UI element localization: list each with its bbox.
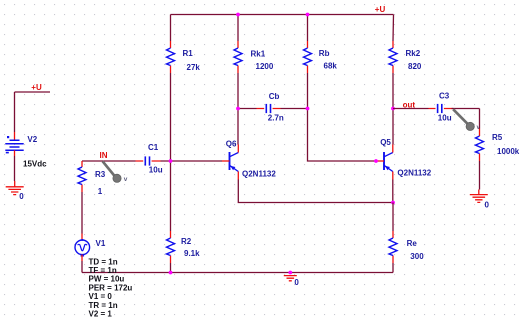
transistor Q5 bbox=[377, 145, 393, 180]
ground 0 (below V2) bbox=[6, 181, 24, 195]
resistor R5 bbox=[476, 129, 484, 162]
svg-text:10u: 10u bbox=[149, 166, 163, 175]
junction dot Q5 base bbox=[374, 159, 378, 163]
junction dot IN column bbox=[169, 159, 173, 163]
svg-text:+U: +U bbox=[375, 5, 386, 14]
wire Rk1 bottom to Cb node to Q6 collector bbox=[237, 73, 239, 145]
wire R3 to V1 bbox=[81, 192, 83, 234]
svg-text:0: 0 bbox=[19, 192, 24, 201]
ground 0 (below R5) bbox=[470, 190, 488, 203]
junction dot emitter bus Re bbox=[391, 201, 395, 205]
svg-text:C1: C1 bbox=[148, 143, 159, 152]
junction dot R2 bottom bbox=[169, 271, 173, 275]
svg-text:Re: Re bbox=[407, 239, 418, 248]
svg-text:C3: C3 bbox=[439, 92, 450, 101]
junction dot Cb right bbox=[306, 107, 310, 111]
source V1 bbox=[75, 234, 90, 262]
wire R2 bottom to rail bbox=[170, 263, 172, 273]
svg-text:300: 300 bbox=[410, 252, 424, 261]
wire Rb column top bbox=[307, 15, 309, 42]
svg-text:V2: V2 bbox=[27, 135, 37, 144]
capacitor C3 bbox=[393, 104, 480, 113]
svg-text:Q6: Q6 bbox=[226, 139, 237, 148]
wire Q5 emitter to Re junction bbox=[392, 180, 394, 203]
wire Rk2 column top bbox=[392, 15, 395, 42]
svg-text:0: 0 bbox=[485, 200, 490, 209]
svg-text:1200: 1200 bbox=[256, 62, 274, 71]
svg-text:820: 820 bbox=[408, 62, 422, 71]
svg-text:0: 0 bbox=[294, 278, 299, 287]
resistor Rb bbox=[304, 41, 312, 73]
wire V1 to bottom rail bbox=[81, 261, 83, 273]
wire IN row R3 to C1 bbox=[82, 160, 136, 162]
wire Re top bbox=[392, 203, 394, 232]
battery V2 bbox=[5, 132, 23, 156]
wire Rb bottom down to Q5 base row bbox=[308, 73, 377, 161]
svg-text:R5: R5 bbox=[492, 133, 503, 142]
junction dot rail-Rk1 bbox=[236, 13, 240, 17]
svg-text:Q5: Q5 bbox=[380, 138, 391, 147]
wire out node to Q5 collector bbox=[392, 109, 394, 145]
capacitor Cb bbox=[238, 104, 308, 113]
svg-text:IN: IN bbox=[100, 151, 108, 160]
svg-text:15Vdc: 15Vdc bbox=[23, 160, 47, 169]
svg-text:27k: 27k bbox=[187, 63, 201, 72]
svg-text:Rk2: Rk2 bbox=[406, 49, 421, 58]
junction dot rail ground bbox=[288, 271, 292, 275]
svg-text:1000k: 1000k bbox=[497, 147, 520, 156]
wire Q6 emitter down and bus to Q5 emitter bbox=[238, 180, 393, 203]
wire Re bottom to rail corner bbox=[392, 263, 394, 273]
junction dot rail-Rb bbox=[306, 13, 310, 17]
wire C3 to R5 bbox=[479, 109, 481, 129]
wire bottom rail bbox=[82, 272, 393, 274]
wire top +U rail bbox=[171, 14, 394, 16]
wire R1 bottom to IN junction to R2 bbox=[170, 73, 172, 231]
svg-text:R1: R1 bbox=[183, 49, 194, 58]
wire Rk1 column top bbox=[237, 15, 239, 42]
resistor Re bbox=[389, 231, 397, 263]
wire C1 to junction to Q6 base bbox=[161, 160, 223, 162]
ground 0 (bottom rail) bbox=[284, 276, 297, 281]
resistor Rk1 bbox=[234, 41, 242, 73]
svg-text:10u: 10u bbox=[438, 114, 452, 123]
resistor R3 bbox=[78, 161, 86, 192]
svg-text:9.1k: 9.1k bbox=[184, 249, 200, 258]
resistor Rk2 bbox=[389, 41, 397, 73]
svg-text:Q2N1132: Q2N1132 bbox=[397, 169, 431, 178]
svg-text:+U: +U bbox=[31, 83, 42, 92]
svg-text:68k: 68k bbox=[324, 62, 338, 71]
svg-text:V1: V1 bbox=[96, 239, 106, 248]
svg-text:R3: R3 bbox=[95, 170, 106, 179]
junction dot Cb left bbox=[236, 107, 240, 111]
svg-text:Rk1: Rk1 bbox=[251, 49, 266, 58]
probe marker (IN) bbox=[103, 161, 128, 183]
wire V2 to ground bbox=[14, 156, 16, 181]
svg-text:Q2N1132: Q2N1132 bbox=[242, 169, 276, 178]
probe marker (out) bbox=[453, 109, 480, 131]
svg-text:Rb: Rb bbox=[319, 49, 330, 58]
junction dot out node bbox=[391, 107, 395, 111]
resistor R2 bbox=[167, 231, 175, 263]
wire Rk2 bottom to out node bbox=[392, 73, 394, 109]
svg-text:1: 1 bbox=[98, 187, 103, 196]
svg-text:Cb: Cb bbox=[269, 92, 280, 101]
wire R5 to ground bbox=[479, 161, 481, 190]
wire V2 +U stub bbox=[15, 92, 51, 132]
capacitor C1 bbox=[136, 156, 161, 165]
resistor R1 bbox=[167, 41, 175, 73]
transistor Q6 bbox=[222, 145, 238, 180]
wire R1 column top bbox=[170, 15, 172, 42]
svg-text:2.7n: 2.7n bbox=[268, 113, 284, 122]
svg-text:v: v bbox=[124, 176, 128, 183]
svg-text:R2: R2 bbox=[181, 237, 192, 246]
